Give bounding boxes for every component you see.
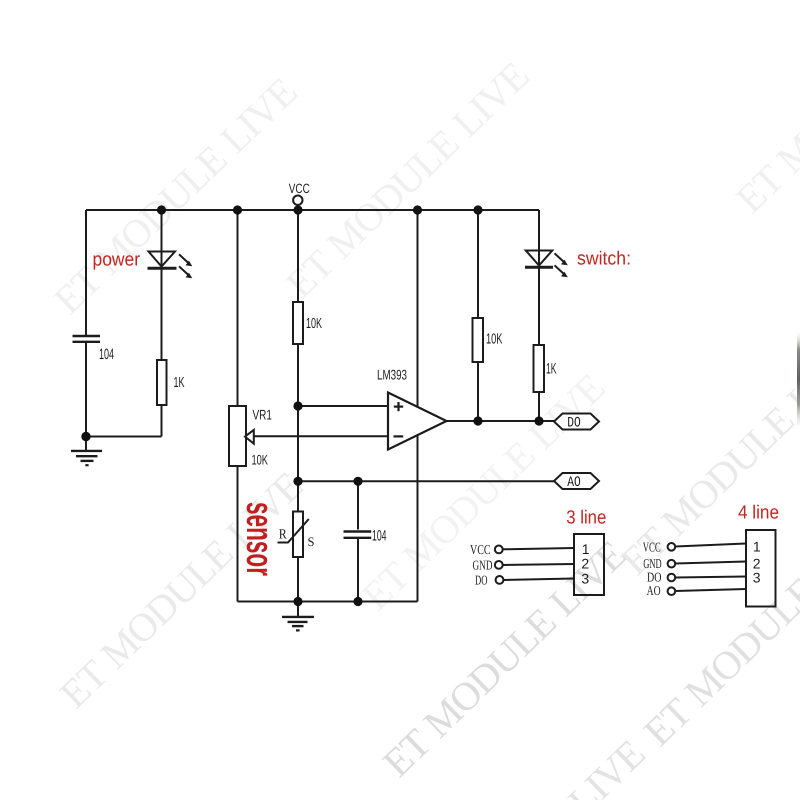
port AO flag [554, 473, 599, 489]
ground (bottom) [282, 602, 314, 631]
sensor element RS [278, 512, 309, 558]
wire non-inverting input [298, 405, 388, 407]
connector 3-line [495, 534, 604, 595]
resistor 1K (switch branch) [534, 345, 545, 392]
wire inverting input from wiper [254, 435, 388, 437]
wire VCC 4-line [675, 544, 746, 547]
port DO flag [554, 414, 599, 430]
junction bottom rail capacitor [353, 597, 362, 606]
junction AO capacitor [353, 477, 362, 486]
wire VCC top rail [86, 209, 539, 211]
svg-text:3: 3 [581, 570, 589, 586]
svg-text:10K: 10K [252, 451, 269, 467]
wire LED cathode to resistor [161, 270, 163, 361]
terminal DO 4-line [668, 574, 676, 582]
wire AO 4-line [675, 589, 746, 591]
wire bottom rail [238, 601, 418, 603]
junction rail op-amp supply [413, 205, 422, 214]
terminal GND 3-line [495, 561, 503, 569]
junction rail right 10K [473, 205, 482, 214]
node VCC terminal [293, 196, 302, 211]
wire capacitor 104 branch bottom [357, 539, 359, 602]
wire sensor bottom [297, 557, 299, 602]
op-amp LM393 [388, 393, 447, 450]
svg-text:1K: 1K [174, 375, 185, 391]
svg-text:VCC: VCC [289, 181, 310, 196]
svg-text:LM393: LM393 [377, 366, 407, 382]
wire DO 4-line [675, 577, 746, 578]
svg-text:GND: GND [473, 557, 493, 572]
wire capacitor 104 branch top [357, 481, 359, 529]
ground (left) [71, 437, 102, 466]
resistor 10K (right) [473, 318, 484, 362]
junction bottom rail sensor [293, 597, 302, 606]
junction rail VR1 [233, 205, 242, 214]
connector 4-line [668, 530, 776, 607]
potentiometer VR1 [229, 406, 254, 466]
resistor 1K (power branch) [157, 360, 167, 405]
terminal GND 4-line [668, 560, 676, 568]
svg-text:104: 104 [99, 346, 114, 363]
svg-text:DO: DO [567, 416, 581, 432]
wire op-amp supply pass-through [417, 210, 419, 602]
svg-text:1: 1 [753, 539, 761, 555]
svg-text:AO: AO [647, 583, 661, 598]
junction rail mid [293, 205, 302, 214]
svg-text:3: 3 [753, 569, 761, 585]
wire GND 3-line [503, 564, 574, 565]
junction DO line 1K [534, 416, 543, 425]
svg-text:4 line: 4 line [738, 502, 779, 523]
svg-text:10K: 10K [306, 316, 322, 332]
wire right 10K branch from rail [477, 210, 479, 318]
wire GND 4-line [675, 562, 746, 564]
terminal AO 4-line [668, 587, 676, 595]
wire right 10K to DO line [477, 362, 479, 421]
wire VR1 top [237, 210, 239, 406]
wire resistor to ground node [161, 405, 163, 437]
svg-text:sensor: sensor [238, 502, 281, 576]
svg-text:S: S [308, 534, 315, 549]
terminal VCC 4-line [668, 543, 676, 551]
wire VR1 bottom to bottom rail [237, 466, 239, 602]
wire 1K to DO line [538, 392, 540, 421]
wire op-amp output DO line [447, 420, 555, 422]
wire LED power anode [161, 210, 163, 360]
terminal DO 3-line [496, 576, 504, 584]
svg-text:AO: AO [567, 475, 581, 491]
svg-text:VCC: VCC [470, 542, 491, 557]
wire left branch lower [85, 343, 87, 437]
wire left branch upper [85, 210, 87, 335]
junction AO node [293, 477, 302, 486]
wire mid branch to node [297, 344, 299, 481]
wire AO line [298, 480, 554, 482]
junction rail LED power [157, 205, 166, 214]
wire sensor top [297, 481, 299, 511]
svg-text:VR1: VR1 [253, 406, 273, 422]
svg-text:104: 104 [372, 528, 387, 545]
terminal VCC 3-line [495, 546, 503, 554]
svg-text:1K: 1K [546, 361, 557, 378]
svg-text:10K: 10K [486, 332, 503, 348]
wire VCC 3-line [503, 548, 574, 549]
header box 4-line [746, 530, 776, 607]
header box 3-line [574, 534, 604, 595]
svg-text:DO: DO [475, 573, 488, 588]
wire rail corner to switch LED [538, 210, 540, 345]
svg-text:2: 2 [581, 556, 589, 572]
svg-text:power: power [93, 250, 141, 271]
wire DO 3-line [504, 579, 575, 581]
photo edge artifact right [797, 333, 800, 425]
capacitor 104 (mid) [344, 532, 372, 538]
svg-text:switch:: switch: [577, 249, 631, 270]
LED power [148, 252, 193, 279]
resistor 10K (mid) [293, 302, 303, 344]
wire ground link [86, 436, 162, 438]
junction ground left [81, 432, 90, 441]
svg-text:3 line: 3 line [566, 507, 606, 528]
junction DO line 10K [473, 416, 482, 425]
junction non-inverting node [293, 401, 302, 410]
capacitor 104 (left) [73, 336, 101, 342]
LED switch [525, 251, 568, 278]
svg-text:VCC: VCC [643, 539, 661, 554]
wire mid branch from rail [297, 210, 299, 302]
wire switch LED to 1K [538, 269, 540, 346]
